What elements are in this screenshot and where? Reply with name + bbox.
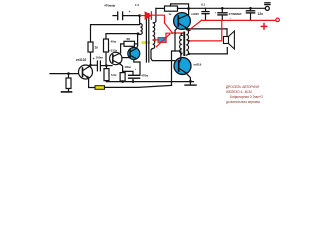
svg-text:5,6к: 5,6к — [111, 73, 117, 77]
ground — [62, 91, 72, 93]
node secondary tap lower — [188, 53, 190, 55]
wire VT2 collector up to R6 — [121, 44, 124, 53]
output transformer primary winding — [180, 33, 182, 55]
output transformer T2 core — [183, 32, 185, 57]
transistor VT1 кт3102 — [79, 65, 93, 79]
wire VT4 collector — [188, 9, 190, 15]
svg-text:40м: 40м — [111, 39, 117, 43]
svg-text:до витильного кирпича: до витильного кирпича — [226, 100, 260, 104]
wire feedback loop top-left — [91, 25, 140, 42]
svg-text:кт3102: кт3102 — [76, 58, 86, 62]
svg-text:68: 68 — [127, 37, 131, 41]
svg-text:100м: 100м — [96, 56, 104, 60]
wire VT3 emitter down — [134, 60, 140, 76]
transistor VT3 blue driver — [122, 57, 130, 59]
transformer secondary winding right — [151, 8, 156, 58]
resistor Rb 40m upper bias — [104, 39, 109, 52]
svg-text:кт815: кт815 — [191, 12, 199, 16]
note text red bottom right — [226, 85, 263, 104]
terminal minus 12v — [265, 6, 269, 10]
wire L2 emitter rail — [105, 85, 172, 87]
svg-text:+: + — [215, 10, 217, 14]
red drop to speaker — [190, 20, 222, 41]
resistor R yellow highlighted emitter — [95, 86, 105, 90]
wire speaker bottom — [189, 53, 227, 55]
svg-text:470м: 470м — [141, 73, 148, 77]
node collector — [89, 64, 92, 67]
capacitor C3 470m bypass — [123, 71, 133, 75]
capacitor C5 0,1 — [205, 8, 207, 11]
wire bias to transformer tap — [106, 33, 138, 35]
wire node to primary top — [139, 16, 141, 24]
resistor R4 5,6k — [120, 73, 125, 81]
node bias — [105, 64, 108, 67]
wire L1 ground rail — [106, 81, 193, 83]
node ground cap — [189, 80, 192, 83]
resistor R6 68 — [124, 41, 135, 46]
terminal plus — [276, 18, 280, 22]
wire VT1 emitter down — [89, 78, 95, 88]
svg-text:Бифилярная 0,7мм+О: Бифилярная 0,7мм+О — [230, 95, 263, 99]
transistor VT5 кт819 blue power — [174, 58, 191, 75]
transformer primary winding left — [138, 23, 142, 34]
red wire diagonal to node — [165, 23, 173, 33]
svg-text:кт819: кт819 — [194, 62, 202, 66]
wire jumper over R5 — [171, 4, 189, 8]
output transformer secondary winding — [186, 29, 188, 55]
svg-text:400м: 400м — [125, 65, 131, 69]
wire speaker top — [186, 28, 227, 30]
red wire VT4 emitter to plus rail — [189, 20, 201, 29]
node base divider junction — [67, 72, 70, 75]
transistor VT2 п-513а — [110, 52, 122, 64]
node tap — [137, 32, 140, 35]
wire VT1 collector up — [89, 52, 91, 67]
svg-text:ДРОСЕЛЬ АВТОРИЧН: ДРОСЕЛЬ АВТОРИЧН — [226, 85, 260, 89]
svg-text:+: + — [93, 57, 95, 61]
transistor VT4 кт815 blue top — [174, 13, 191, 30]
red wire down to regulator element — [166, 33, 173, 38]
svg-text:470мкф: 470мкф — [104, 3, 116, 7]
resistor R1 1k collector load — [88, 42, 93, 52]
wire VT3 collector — [136, 46, 139, 49]
red wire diode to node — [152, 15, 165, 23]
red plus rail — [202, 19, 277, 21]
svg-text:ЖЕЛЕЗО 4...6СМ: ЖЕЛЕЗО 4...6СМ — [226, 90, 252, 94]
wire node to winding bottom — [137, 34, 139, 46]
capacitor C2 100m coupling — [91, 64, 97, 66]
transformer core — [145, 14, 147, 63]
capacitor C1 470mkf top — [113, 15, 117, 17]
red power wiring right — [189, 18, 279, 41]
wire VT2 emitter network — [121, 64, 123, 71]
wire input left — [50, 73, 78, 75]
wire top supply rail — [189, 7, 266, 9]
yellow highlight dash on wire near transformer — [142, 41, 151, 44]
wire VT4 emitter down — [175, 29, 181, 58]
node rail left — [187, 7, 190, 10]
wire L2 up to VT5 base area — [172, 51, 176, 85]
node secondary tap upper — [188, 40, 190, 42]
wire secondary to VT5 base — [151, 58, 175, 60]
element X1 blue box with red strike — [158, 38, 166, 43]
wire VT5 emitter to ground cap — [186, 73, 191, 82]
node VT4 emitter — [188, 28, 191, 31]
diode D red — [141, 12, 185, 38]
speaker — [224, 37, 229, 44]
svg-text:+: + — [230, 16, 232, 20]
capacitor to ground — [189, 81, 191, 84]
svg-text:12v: 12v — [258, 12, 264, 16]
resistor R2 (base to ground) — [68, 74, 70, 78]
svg-text:+: + — [129, 10, 131, 14]
svg-text:1к: 1к — [95, 45, 99, 49]
svg-text:0,1: 0,1 — [201, 2, 206, 6]
capacitor C7 — [249, 7, 252, 10]
svg-text:1-5: 1-5 — [135, 3, 139, 7]
red wire to output transformer — [173, 32, 185, 34]
resistor R5 1k top — [156, 7, 165, 9]
capacitor C6 4700MkF — [221, 7, 224, 10]
svg-text:п-513а: п-513а — [108, 48, 118, 52]
resistor R3 lower bias — [105, 66, 107, 69]
